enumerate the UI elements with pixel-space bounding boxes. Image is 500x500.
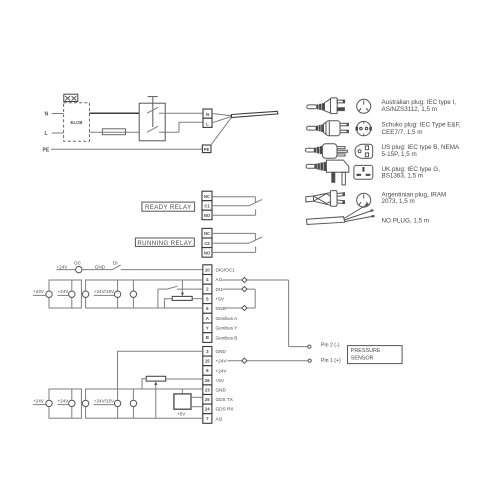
svg-text:L: L: [206, 121, 209, 126]
svg-text:+5V: +5V: [177, 412, 186, 417]
svg-text:+24V: +24V: [33, 289, 45, 294]
svg-text:23: 23: [205, 387, 210, 392]
svg-text:GND: GND: [216, 388, 227, 393]
svg-text:Genibus A: Genibus A: [216, 316, 239, 321]
svg-text:Y: Y: [206, 326, 209, 331]
svg-text:ELCB: ELCB: [71, 120, 83, 125]
svg-text:+5V: +5V: [216, 297, 225, 302]
svg-text:Genibus B: Genibus B: [216, 335, 238, 340]
svg-text:+24V/15V: +24V/15V: [94, 289, 115, 294]
svg-text:N: N: [206, 112, 209, 117]
svg-text:PE: PE: [204, 147, 210, 152]
svg-text:Pin 1 (+): Pin 1 (+): [321, 358, 341, 364]
svg-text:AI2: AI2: [216, 416, 223, 421]
svg-text:DIG/OC1: DIG/OC1: [216, 267, 236, 272]
svg-text:AS/NZS3112, 1,5 m: AS/NZS3112, 1,5 m: [382, 106, 438, 113]
svg-text:+24V: +24V: [57, 264, 69, 269]
svg-text:RUNNING RELAY: RUNNING RELAY: [137, 240, 192, 247]
svg-text:N: N: [45, 112, 49, 118]
svg-text:L: L: [45, 131, 48, 137]
svg-text:BS1363, 1,5 m: BS1363, 1,5 m: [382, 173, 424, 180]
svg-text:+24V/15V: +24V/15V: [94, 398, 115, 403]
svg-text:Australian plug: IEC type I,: Australian plug: IEC type I,: [382, 99, 457, 106]
svg-text:AI1: AI1: [216, 277, 223, 282]
svg-text:C2: C2: [204, 241, 210, 246]
svg-text:NC: NC: [204, 194, 210, 199]
svg-text:+24V: +24V: [58, 289, 70, 294]
svg-text:+24V: +24V: [216, 368, 228, 373]
svg-text:2073, 1,5 m: 2073, 1,5 m: [382, 198, 415, 205]
svg-text:GND: GND: [216, 306, 227, 311]
svg-text:GND: GND: [216, 349, 227, 354]
svg-text:26: 26: [205, 378, 210, 383]
svg-text:Genibus Y: Genibus Y: [216, 326, 239, 331]
svg-text:NO: NO: [204, 250, 211, 255]
svg-text:25: 25: [205, 397, 210, 402]
svg-text:24: 24: [205, 407, 210, 412]
svg-text:5-15P, 1,5 m: 5-15P, 1,5 m: [382, 151, 417, 158]
svg-text:NO: NO: [204, 213, 211, 218]
svg-text:+24V: +24V: [58, 398, 70, 403]
svg-text:DI: DI: [113, 260, 118, 265]
svg-text:READY RELAY: READY RELAY: [145, 204, 192, 211]
svg-text:GDS RX: GDS RX: [216, 407, 235, 412]
svg-text:15: 15: [205, 359, 210, 364]
svg-text:+24V: +24V: [33, 398, 45, 403]
svg-text:PRESSURE: PRESSURE: [351, 348, 381, 354]
svg-text:GND: GND: [95, 264, 106, 269]
svg-text:+24V: +24V: [216, 359, 228, 364]
svg-text:+5V: +5V: [216, 378, 225, 383]
svg-text:NO PLUG, 1,5 m: NO PLUG, 1,5 m: [382, 218, 430, 225]
svg-text:C1: C1: [204, 203, 210, 208]
svg-text:GDS TX: GDS TX: [216, 397, 234, 402]
svg-text:B: B: [206, 335, 209, 340]
svg-text:SENSOR: SENSOR: [351, 355, 374, 361]
svg-text:DI1: DI1: [216, 287, 224, 292]
svg-text:PE: PE: [43, 147, 50, 153]
svg-text:CEE7/7, 1,5 m: CEE7/7, 1,5 m: [382, 129, 423, 136]
svg-text:NC: NC: [204, 231, 210, 236]
svg-text:10: 10: [205, 267, 210, 272]
svg-text:OC: OC: [74, 260, 82, 265]
svg-text:Schuko plug: IEC Type E&F,: Schuko plug: IEC Type E&F,: [382, 122, 461, 129]
svg-text:Pin 2 (-): Pin 2 (-): [321, 343, 340, 349]
